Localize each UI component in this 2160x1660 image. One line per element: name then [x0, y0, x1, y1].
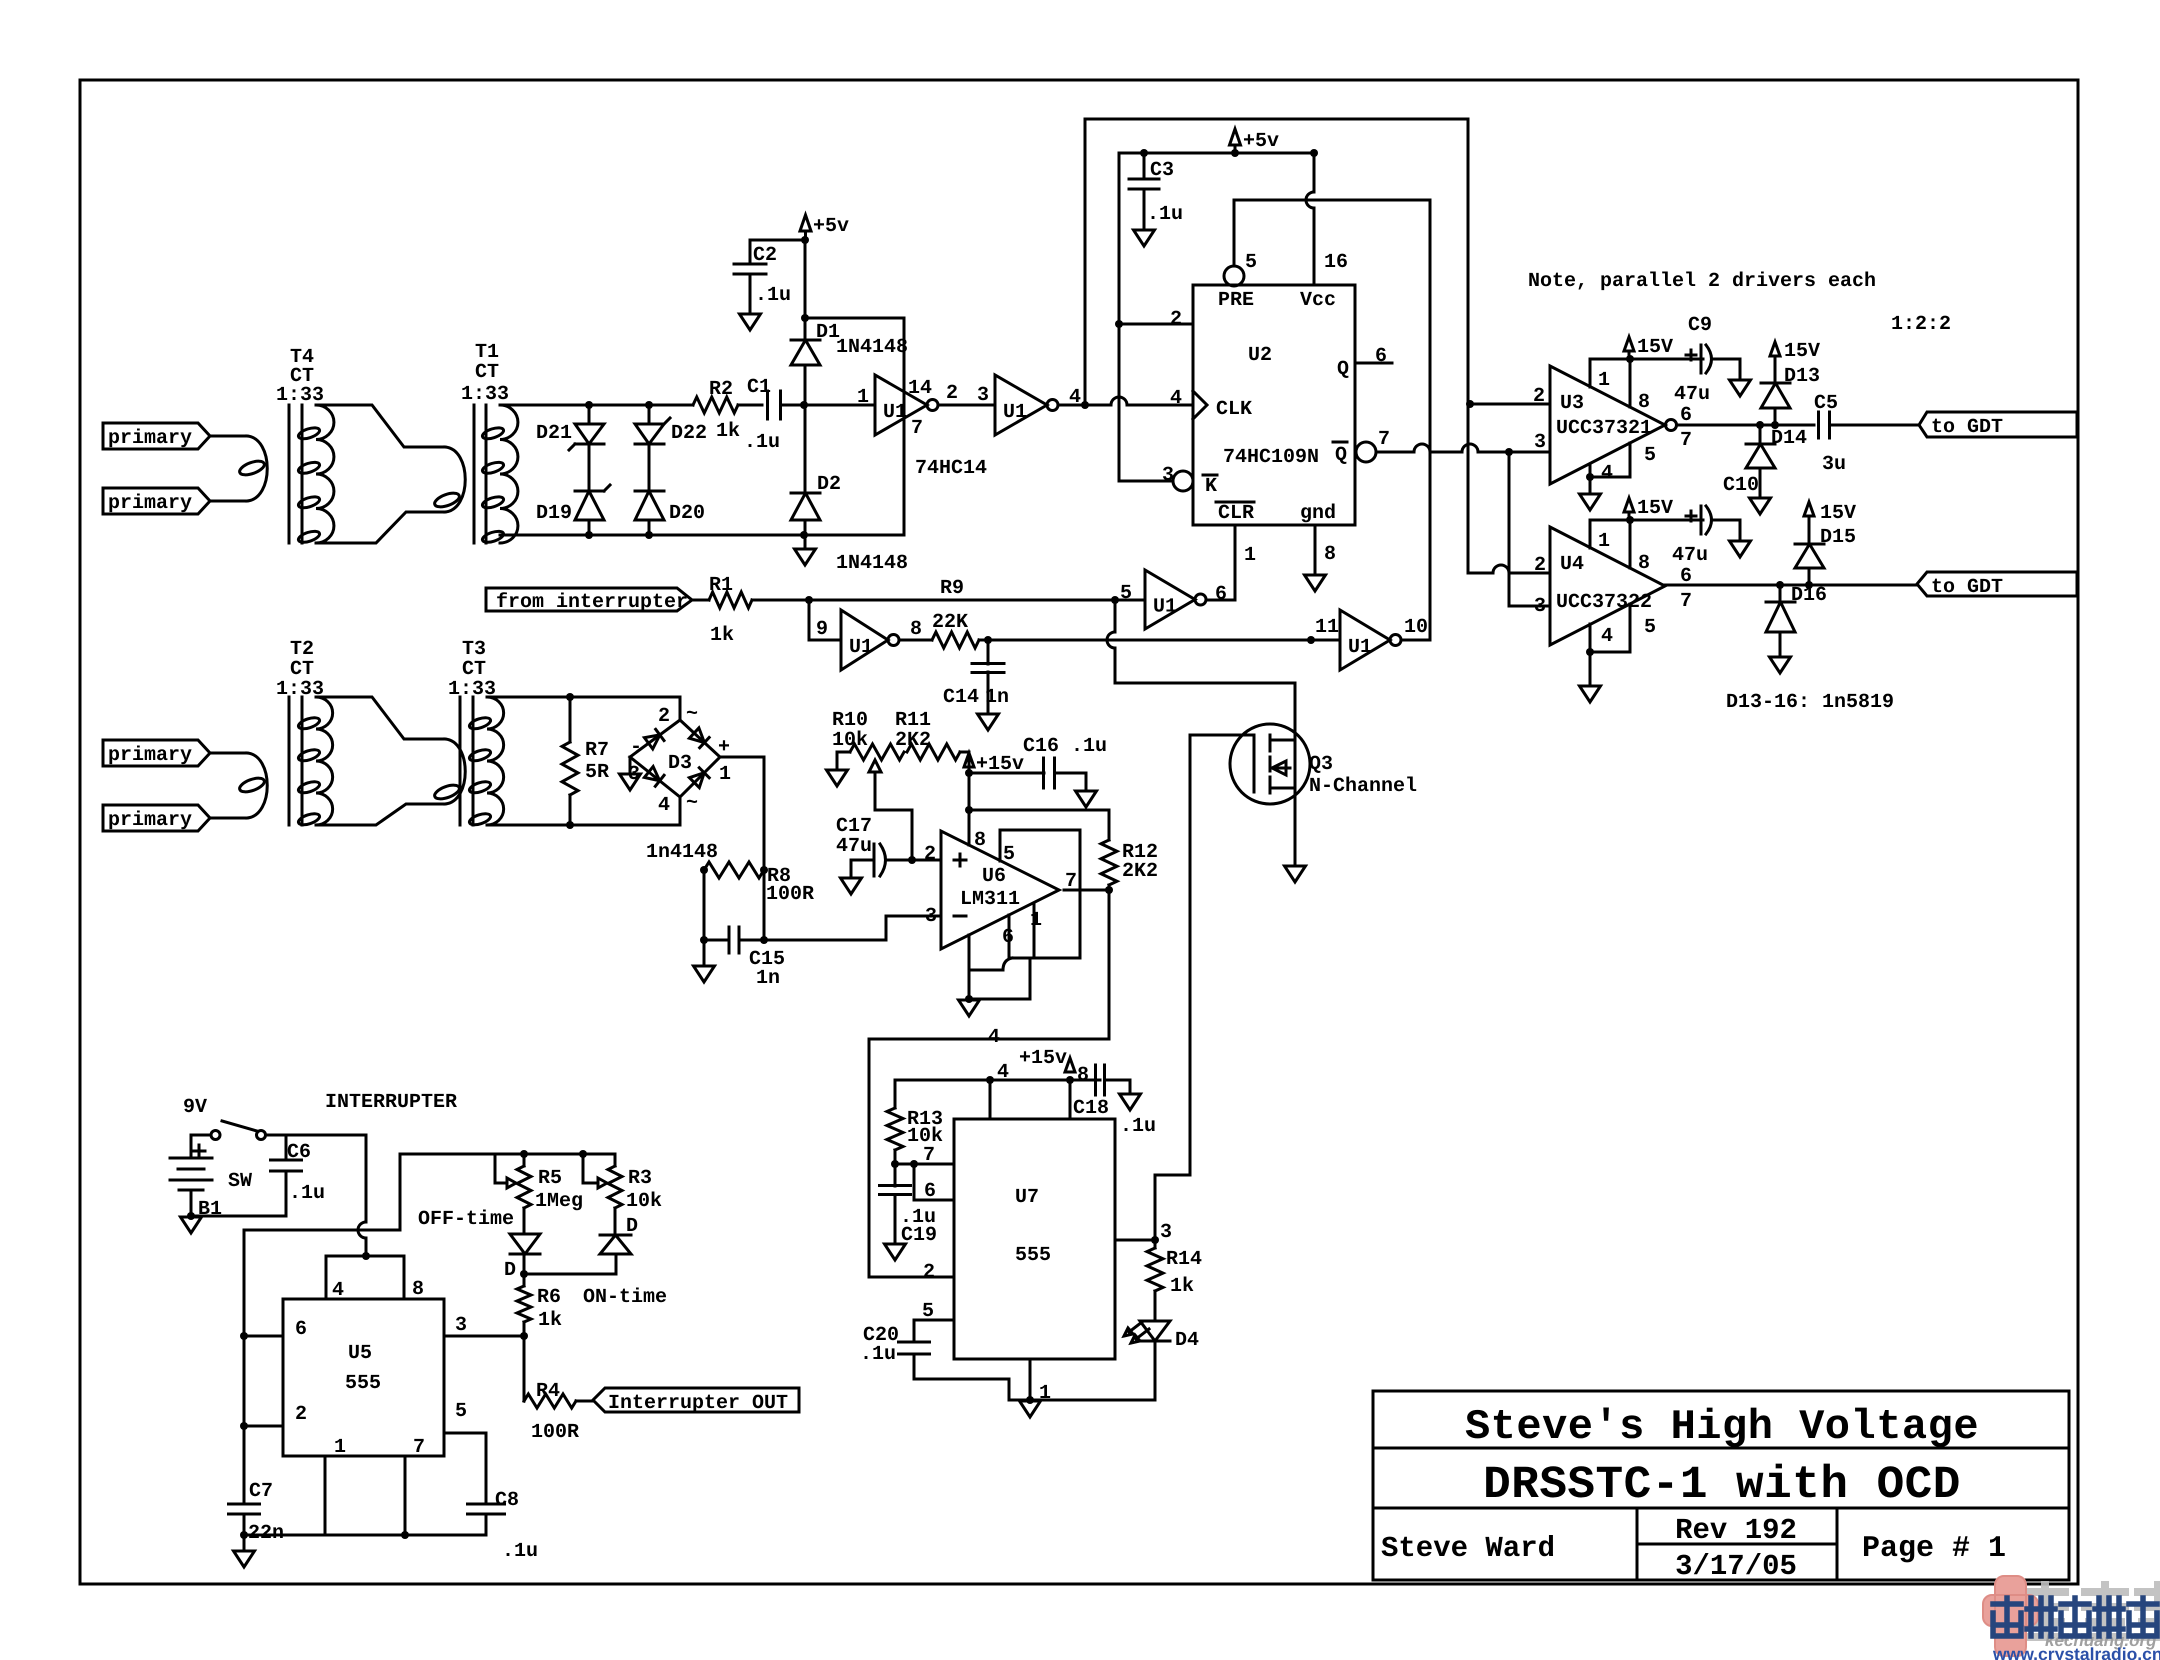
wire +15v rail to C16	[969, 772, 1044, 775]
svg-text:U1: U1	[1003, 401, 1027, 424]
junction dot	[800, 531, 808, 539]
ic U2 74HC109N box	[1193, 285, 1355, 525]
svg-text:D20: D20	[669, 502, 705, 525]
svg-text:K: K	[1205, 475, 1217, 498]
svg-text:U1: U1	[883, 401, 907, 424]
wire primary flag1 to T4 primary	[210, 435, 247, 438]
svg-text:2: 2	[1534, 554, 1546, 577]
svg-text:2: 2	[1170, 308, 1182, 331]
junction dot	[1231, 149, 1239, 157]
transformer T1 label	[461, 341, 509, 406]
svg-text:6: 6	[1215, 583, 1227, 606]
led D4 label	[1175, 1329, 1199, 1352]
capacitor C19 labels	[900, 1206, 937, 1247]
wire C5 to flag	[1830, 424, 1919, 427]
to GDT flag 2 (net label)	[1917, 572, 2077, 599]
driver U3 UCC37321 triangle	[1550, 366, 1665, 484]
wire J pin2	[1119, 323, 1193, 326]
driver U4 labels	[1556, 553, 1652, 614]
primary flag 4 (net label)	[103, 805, 210, 832]
title block col line 1	[1636, 1508, 1639, 1580]
capacitor C3	[1129, 153, 1159, 229]
resistor R22K	[932, 632, 979, 648]
ground below U4	[1580, 686, 1601, 702]
wire K pin3	[1119, 480, 1172, 483]
svg-text:15V: 15V	[1820, 502, 1856, 525]
wire U2 gnd pin8	[1314, 525, 1317, 574]
svg-text:4: 4	[1601, 462, 1613, 485]
title block row line 1	[1373, 1447, 2069, 1450]
wire D20 bottom	[648, 520, 651, 535]
transformer T4 primary winding	[238, 436, 267, 501]
svg-text:INTERRUPTER: INTERRUPTER	[325, 1091, 457, 1114]
capacitor C2	[734, 240, 766, 313]
inversion bubble U3	[1666, 420, 1677, 431]
inverter C pin label 8	[910, 618, 922, 641]
junction dot pin4 node	[1081, 401, 1089, 409]
pin5 label U7	[922, 1300, 934, 1323]
wire C20 to pin1 ground	[914, 1354, 1009, 1400]
title text date	[1675, 1550, 1797, 1583]
svg-text:U1: U1	[1348, 636, 1372, 659]
svg-text:2: 2	[924, 843, 936, 866]
wire U2 CLR pin1	[1234, 525, 1237, 600]
junction dot R8 left	[700, 866, 708, 874]
power +15v arrow U7	[1019, 1047, 1075, 1072]
pin labels U5 1 7	[334, 1436, 425, 1459]
wire +5v to C2	[750, 239, 805, 242]
svg-text:74HC14: 74HC14	[915, 457, 987, 480]
svg-text:2: 2	[923, 1261, 935, 1284]
pin labels U7 4 8	[997, 1061, 1089, 1087]
svg-text:CT: CT	[475, 361, 499, 384]
wire pin3 to R4	[523, 1336, 526, 1401]
svg-text:R4: R4	[536, 1380, 560, 1403]
svg-text:R3: R3	[628, 1167, 652, 1190]
svg-text:D13: D13	[1784, 365, 1820, 388]
ground below D16	[1770, 657, 1791, 673]
svg-text:C1: C1	[747, 376, 771, 399]
op-amp U1 inverter D (74HC14 pins 11/10)	[1340, 610, 1401, 670]
wire bridge bottom lead	[679, 797, 682, 825]
wire R10 left to ground	[837, 752, 850, 769]
ground below C10	[1730, 541, 1751, 557]
svg-text:SW: SW	[228, 1170, 252, 1193]
svg-text:1:2:2: 1:2:2	[1891, 313, 1951, 336]
svg-text:U2: U2	[1248, 344, 1272, 367]
wire U6 output down to U7 pin2	[869, 890, 1109, 1277]
op-amp U6 labels	[960, 865, 1020, 911]
capacitor C10 labels	[1672, 474, 1759, 567]
op-amp U1 inverter B (74HC14 pins 3/4)	[995, 375, 1058, 435]
svg-text:4: 4	[658, 794, 670, 817]
capacitor C8 labels	[495, 1489, 538, 1563]
zener D19 label	[536, 502, 572, 525]
resistor R11 labels	[895, 709, 931, 752]
battery B1	[170, 1158, 212, 1190]
svg-text:primary: primary	[108, 427, 192, 450]
svg-text:5: 5	[1120, 582, 1132, 605]
capacitor C17 labels	[836, 815, 872, 858]
pin3 label U5	[455, 1314, 467, 1337]
svg-text:U3: U3	[1560, 392, 1584, 415]
svg-text:U5: U5	[348, 1342, 372, 1365]
pin2 label U6	[924, 843, 936, 866]
svg-text:1n: 1n	[756, 967, 780, 990]
diode D on-time	[600, 1235, 631, 1254]
transformer T1 secondary winding	[481, 405, 518, 544]
battery B1 label	[198, 1198, 222, 1221]
zener D20 label	[669, 502, 705, 525]
wire battery minus rail	[191, 1190, 286, 1216]
svg-text:1: 1	[1244, 544, 1256, 567]
wire T4 secondary top to T1 primary	[316, 405, 445, 447]
inversion bubble K pin	[1173, 471, 1193, 491]
junction dot R3 wiper	[579, 1150, 587, 1158]
junction dot Qbar branch	[1505, 448, 1513, 456]
svg-text:5: 5	[1245, 251, 1257, 274]
resistor R1	[692, 592, 809, 608]
interrupter section title	[325, 1091, 457, 1114]
power 15V arrow U3	[1624, 336, 1673, 359]
svg-text:.1u: .1u	[289, 1182, 325, 1205]
svg-text:D4: D4	[1175, 1329, 1199, 1352]
resistor R6	[517, 1286, 531, 1336]
wire U7 pin4 stub	[989, 1080, 992, 1119]
diode D14 label	[1771, 427, 1807, 450]
capacitor C10	[1686, 506, 1712, 534]
wire D22 top	[648, 405, 651, 424]
svg-text:+5v: +5v	[813, 215, 849, 238]
wire U5 pin5 to C8	[444, 1433, 486, 1504]
wire R9 node to Q3 drain	[1107, 600, 1295, 740]
clock wedge U2 CLK	[1193, 391, 1207, 419]
svg-text:1k: 1k	[538, 1309, 562, 1332]
driver U3 out pin labels	[1680, 404, 1692, 452]
svg-text:R7: R7	[585, 739, 609, 762]
op-amp U6 balance pin labels	[1002, 843, 1077, 949]
svg-text:3: 3	[925, 905, 937, 928]
svg-text:UCC37321: UCC37321	[1556, 417, 1652, 440]
transformer T2 label	[276, 638, 324, 701]
svg-text:to GDT: to GDT	[1931, 576, 2003, 599]
power +5v arrow	[800, 215, 849, 240]
wire C1 to node	[781, 404, 875, 407]
junction dot U6 pin2 node	[908, 856, 916, 864]
svg-text:-: -	[630, 736, 642, 759]
driver U3 pin4/5 ground	[1590, 443, 1630, 493]
svg-text:100R: 100R	[766, 883, 814, 906]
wire C18 to ground	[1105, 1080, 1130, 1093]
inverter D pin label 11	[1315, 616, 1339, 639]
wire U2 pin6 stub	[1355, 362, 1392, 365]
capacitor C6	[271, 1135, 302, 1216]
wire R9 net	[809, 599, 1115, 602]
wire D19 bottom	[588, 520, 591, 535]
ground below battery	[181, 1217, 202, 1233]
junction dot pin7 branch	[910, 1160, 918, 1168]
svg-text:Page # 1: Page # 1	[1862, 1532, 2006, 1566]
op-amp U6 pin6 stub	[1008, 915, 1011, 958]
wire bridge minus to ground	[629, 757, 632, 773]
svg-text:Rev 192: Rev 192	[1675, 1514, 1797, 1547]
junction dot +5v node	[801, 236, 809, 244]
ground below D2	[795, 549, 816, 565]
svg-text:C5: C5	[1814, 392, 1838, 415]
svg-text:Steve Ward: Steve Ward	[1381, 1532, 1555, 1565]
wire U7 pin7	[895, 1163, 954, 1166]
junction dot pins4/8 node	[362, 1252, 370, 1260]
svg-text:6: 6	[1002, 926, 1014, 949]
wire U4 output	[1665, 584, 1917, 587]
title text Steve Ward	[1381, 1532, 1555, 1565]
svg-text:74HC109N: 74HC109N	[1223, 446, 1319, 469]
wire D21 top	[588, 405, 591, 424]
primary flag 1 (net label)	[103, 423, 210, 450]
diode D off-time	[510, 1234, 540, 1254]
wire ground rail stub	[804, 535, 807, 548]
capacitor C20 labels	[860, 1324, 899, 1366]
wire U2 +5v rail	[1119, 152, 1314, 155]
wire D2 to ground rail	[804, 520, 807, 535]
junction dot R9/pin5	[1111, 596, 1119, 604]
ground below R8 left	[694, 966, 715, 982]
pin7 label U7	[923, 1144, 935, 1167]
inverter E pin labels	[1120, 582, 1227, 606]
op-amp U6 LM311 triangle	[941, 831, 1059, 949]
pin3 label U3	[1534, 431, 1546, 454]
junction dot R1 out	[805, 596, 813, 604]
wire T4 secondary bottom to T1 primary	[316, 512, 445, 543]
ic U7 555 box	[954, 1119, 1115, 1359]
wire switch to C6/U5	[266, 1134, 367, 1137]
svg-text:47u: 47u	[1672, 544, 1708, 567]
wire J/K tie vertical	[1118, 153, 1121, 481]
driver U3 labels	[1556, 392, 1652, 440]
resistor R8 labels	[766, 865, 814, 906]
capacitor C8	[468, 1504, 505, 1514]
svg-text:10k: 10k	[626, 1190, 662, 1213]
ground below C14	[978, 714, 999, 730]
svg-text:U1: U1	[1153, 596, 1177, 619]
wire U5 pin8 stub	[403, 1256, 406, 1299]
transformer T3 core	[460, 697, 473, 825]
transformer T1 core	[474, 405, 486, 543]
diode D1 labels	[816, 321, 908, 359]
wire pin3 to Q3 gate	[1155, 735, 1254, 1240]
svg-text:D19: D19	[536, 502, 572, 525]
bridge D3 diode 3-4	[644, 767, 664, 787]
capacitor C9	[1686, 345, 1712, 373]
diode D16 label	[1791, 584, 1827, 607]
junction dot D15 tap	[1805, 581, 1813, 589]
wire R11 to +15v node	[960, 752, 969, 773]
svg-text:D2: D2	[817, 473, 841, 496]
power 15V arrow D15	[1804, 502, 1856, 525]
svg-text:2K2: 2K2	[1122, 860, 1158, 883]
svg-text:D15: D15	[1820, 526, 1856, 549]
svg-text:555: 555	[345, 1372, 381, 1395]
capacitor C2 labels	[753, 244, 791, 307]
led D4 arrows	[1124, 1322, 1149, 1343]
svg-text:3: 3	[977, 384, 989, 407]
inversion bubble Qbar	[1356, 442, 1376, 462]
svg-text:100R: 100R	[531, 1421, 579, 1444]
svg-text:Interrupter OUT: Interrupter OUT	[608, 1392, 788, 1415]
transistor Q3 labels	[1309, 753, 1417, 798]
pin6 label U7	[924, 1180, 936, 1203]
transformer T3 label	[448, 638, 496, 701]
transformer T4 secondary winding	[297, 405, 334, 544]
capacitor C15 labels	[749, 948, 785, 990]
svg-text:8: 8	[1638, 552, 1650, 575]
svg-text:9: 9	[816, 618, 828, 641]
svg-text:1:33: 1:33	[461, 383, 509, 406]
svg-text:22n: 22n	[248, 1522, 284, 1545]
wire U7 pin5 to C20	[914, 1320, 954, 1342]
svg-text:+15v: +15v	[1019, 1047, 1067, 1070]
wire U4 pin2 wire	[1470, 565, 1550, 573]
svg-text:D21: D21	[536, 422, 572, 445]
svg-text:2: 2	[658, 705, 670, 728]
svg-text:11: 11	[1315, 616, 1339, 639]
svg-text:8: 8	[1077, 1064, 1089, 1087]
pin4 label U6	[988, 1026, 1000, 1049]
bridge D3 diode 3-2	[644, 729, 664, 749]
svg-text:C16 .1u: C16 .1u	[1023, 735, 1107, 758]
svg-text:7: 7	[911, 417, 923, 440]
wire primary flag3 to T2 primary	[210, 752, 247, 755]
svg-text:primary: primary	[108, 744, 192, 767]
capacitor C1 labels	[744, 376, 780, 454]
capacitor C6 labels	[287, 1141, 325, 1205]
driver U4 out pin labels	[1680, 565, 1692, 613]
svg-text:1N4148: 1N4148	[836, 336, 908, 359]
to GDT flag 1 (net label)	[1919, 412, 2077, 439]
potentiometer R10 wiper	[869, 760, 912, 860]
capacitor C1	[768, 391, 781, 419]
op-amp U1 inverter A (74HC14 pins 1/2)	[875, 375, 938, 435]
svg-text:8: 8	[1324, 543, 1336, 566]
transistor Q3 gate bar	[1253, 736, 1256, 792]
wire U7 pin3	[1115, 1239, 1155, 1242]
transformer T4 label	[276, 346, 324, 407]
svg-text:8: 8	[974, 829, 986, 852]
capacitor C17	[851, 844, 912, 877]
74HC14 label	[915, 457, 987, 480]
driver U4 pin1/8 supply	[1590, 520, 1703, 568]
bridge 1n4148 label	[646, 841, 718, 864]
junction dot U3 15V	[1626, 355, 1634, 363]
svg-text:R14: R14	[1166, 1248, 1202, 1271]
pin2 label U7	[923, 1261, 935, 1284]
svg-text:10: 10	[1404, 616, 1428, 639]
inversion bubble PRE	[1224, 266, 1244, 286]
wire inverter A out to inverter B	[938, 404, 995, 407]
op-amp U6 pin8 stub	[968, 810, 971, 845]
svg-text:1k: 1k	[710, 624, 734, 647]
transformer T3 secondary winding	[468, 697, 503, 827]
resistor R5 labels	[535, 1167, 583, 1213]
capacitor C5 labels	[1814, 392, 1846, 476]
svg-text:LM311: LM311	[960, 888, 1020, 911]
wire +5v rail to U1 supply	[805, 317, 904, 320]
svg-text:PRE: PRE	[1218, 289, 1254, 312]
ground below C3	[1134, 230, 1155, 246]
svg-text:10k: 10k	[832, 729, 868, 752]
junction dot D14 tap	[1756, 421, 1764, 429]
title text Steve's High Voltage	[1465, 1403, 1979, 1451]
junction dot U6 output	[1105, 886, 1113, 894]
svg-text:C6: C6	[287, 1141, 311, 1164]
wire pin1 ground rail	[1009, 1399, 1155, 1402]
svg-text:www.crystalradio.cn: www.crystalradio.cn	[1992, 1644, 2160, 1660]
pin6 label U5	[295, 1318, 307, 1341]
svg-text:R1: R1	[709, 574, 733, 597]
junction dot pin3 R4	[520, 1332, 528, 1340]
junction dot C7 gnd	[240, 1531, 248, 1539]
junction dot U4 15V	[1626, 516, 1634, 524]
wire +5v down to D1	[804, 240, 807, 340]
wire C7 to ground	[243, 1535, 246, 1550]
op-amp U1 inverter C (74HC14 pins 9/8)	[841, 610, 899, 670]
svg-text:Q: Q	[1337, 358, 1349, 381]
svg-text:U4: U4	[1560, 553, 1584, 576]
wire D4 to ground rail	[1154, 1341, 1157, 1400]
svg-text:Note, parallel 2 drivers each: Note, parallel 2 drivers each	[1528, 270, 1876, 293]
junction dot	[645, 401, 653, 409]
ic U2 CLRbar text	[1216, 502, 1254, 525]
wire T1 secondary top rail	[500, 404, 693, 407]
svg-text:22K: 22K	[932, 611, 968, 634]
driver U3 supply pin labels	[1598, 369, 1650, 414]
resistor R14	[1147, 1240, 1163, 1321]
switch SW	[211, 1121, 266, 1140]
svg-text:C8: C8	[495, 1489, 519, 1512]
resistor R4 labels	[531, 1380, 579, 1444]
wire primary flag4 to T2 primary	[210, 817, 247, 820]
capacitor C14 labels	[943, 686, 1009, 709]
wire diode node	[524, 1254, 616, 1286]
resistor R11	[907, 744, 960, 760]
zener D20	[635, 491, 664, 520]
junction dot U7 pin1	[1026, 1396, 1034, 1404]
resistor R3 labels	[626, 1167, 662, 1213]
svg-text:R2: R2	[709, 378, 733, 401]
transistor Q3 circle	[1230, 724, 1310, 804]
junction dot J	[1115, 320, 1123, 328]
ic U2 Kbar text	[1203, 475, 1217, 498]
ground U2 pin8	[1305, 575, 1326, 591]
capacitor C7	[229, 1504, 260, 1514]
junction dot pin6	[240, 1332, 248, 1340]
wire U7 pin8 stub	[1069, 1080, 1072, 1119]
svg-text:6: 6	[924, 1180, 936, 1203]
capacitor C9 labels	[1674, 314, 1712, 406]
transformer T2 core	[289, 697, 302, 825]
svg-text:N-Channel: N-Channel	[1309, 775, 1417, 798]
svg-text:R6: R6	[537, 1286, 561, 1309]
svg-text:gnd: gnd	[1300, 502, 1336, 525]
resistor R13 labels	[907, 1108, 943, 1148]
wire switch net down to U5 pins4/8	[358, 1135, 366, 1256]
transformer T3 primary winding	[433, 739, 465, 804]
junction dot +15v node	[965, 769, 973, 777]
wire U6 output node	[1064, 889, 1109, 892]
power +5v arrow U2	[1230, 129, 1280, 153]
title block outer box	[1373, 1391, 2069, 1580]
svg-text:CLK: CLK	[1216, 398, 1252, 421]
